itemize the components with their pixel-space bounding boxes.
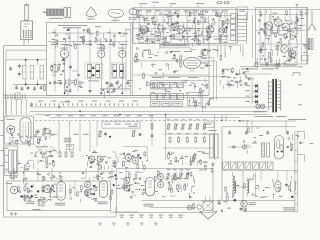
resistor R2	[75, 79, 77, 86]
box E left edge	[242, 171, 244, 212]
res stage1 low	[23, 196, 30, 198]
bus rail y97.8	[4, 97, 253, 99]
fuse bracket F1	[293, 73, 300, 76]
label ps	[241, 67, 274, 70]
box B wire h1	[133, 9, 320, 11]
cap C16	[37, 129, 40, 134]
box C right double edge	[305, 7, 307, 64]
connector plug J1	[24, 3, 29, 21]
diamonds stage2	[93, 185, 96, 196]
capacitor C15	[30, 102, 33, 107]
pot P2	[98, 130, 102, 138]
black mark E	[291, 196, 293, 198]
output tube V23 envelope	[57, 182, 66, 201]
filter capacitor C1	[64, 8, 67, 19]
tube V4 ellipse	[184, 57, 201, 72]
left border labels	[0, 120, 3, 166]
box A scatter lower2	[102, 80, 132, 97]
hook wire right2	[297, 155, 304, 162]
label tone	[255, 115, 286, 118]
scatter right of speaker	[218, 195, 231, 211]
label L1 value	[50, 17, 63, 20]
box A bottom junctions	[64, 88, 124, 94]
padder trimmer C11	[23, 65, 26, 79]
vibrator contact grid	[23, 30, 32, 37]
comb box	[15, 93, 20, 99]
tube V20 envelope	[275, 136, 284, 160]
tube V3 label	[118, 47, 125, 50]
driver bank row1	[167, 123, 207, 130]
capacitor C10	[18, 64, 21, 77]
box C wire h1	[256, 14, 307, 44]
wire left border 2	[5, 60, 7, 115]
wire tone top	[240, 120, 296, 122]
small box T4top	[204, 122, 214, 128]
tube V1	[60, 50, 68, 58]
scatter tone	[287, 134, 305, 151]
wires above box	[14, 168, 52, 181]
transformer T1 core	[272, 79, 276, 112]
pilot lamp LP2	[256, 104, 260, 108]
box D2 windings	[9, 150, 17, 173]
pilot lamp LP3	[261, 104, 265, 108]
lower text band	[98, 223, 158, 226]
box B wire h3	[135, 35, 229, 37]
bus rail y117.4	[50, 116, 240, 118]
vertical chain mid	[151, 115, 154, 146]
scatter out1	[17, 184, 58, 201]
label below C	[260, 64, 297, 67]
box D2 outline	[5, 146, 18, 176]
tube V15 envelope	[20, 118, 31, 144]
inverter row2	[169, 184, 186, 191]
label box B3	[161, 44, 189, 48]
box E scatter	[225, 173, 292, 199]
wire A-right h1	[133, 28, 209, 30]
tube V17	[97, 156, 103, 162]
terminal strip row1	[151, 82, 184, 87]
wire M1 leads	[24, 20, 29, 46]
capacitor C6	[69, 65, 72, 70]
strip top labels	[152, 76, 198, 79]
shield box C outline	[256, 7, 308, 64]
scatter mid-left2	[28, 149, 56, 169]
gram unit outer box	[222, 127, 297, 212]
wire ladder bottom	[13, 83, 46, 85]
tuner cloud K3	[129, 9, 137, 20]
wire comb drops	[6, 99, 26, 118]
marks rail mid	[51, 133, 89, 136]
output tube V23b envelope	[99, 181, 107, 198]
tube V25	[124, 185, 130, 191]
small part mid-left	[66, 144, 73, 149]
capacitor C7b	[59, 81, 62, 86]
shield box B outline	[133, 8, 236, 44]
tube V16	[89, 156, 95, 162]
choke L2	[233, 172, 235, 198]
capacitor C9	[127, 81, 130, 86]
scatter below B	[191, 46, 232, 61]
padder trimmer C13	[40, 65, 43, 79]
transformer T1 secondary winding	[278, 80, 281, 111]
rectifier D2	[255, 90, 258, 93]
small box B2	[237, 7, 248, 20]
label mid-left	[36, 145, 48, 148]
tube V13	[288, 50, 296, 58]
rail junction dots	[58, 106, 241, 122]
box D outline	[5, 116, 34, 144]
label V23b	[98, 201, 108, 204]
wire vert x252.5	[252, 15, 254, 57]
row above stage2	[81, 172, 145, 183]
wires above stage2	[86, 168, 126, 180]
box B text rows	[136, 10, 228, 39]
tube V10	[282, 23, 290, 31]
res tone right	[310, 142, 314, 145]
tube V2 label	[97, 47, 104, 50]
scatter bank below	[168, 151, 215, 173]
junction d1	[109, 136, 111, 138]
wire h y146.6	[123, 147, 147, 160]
cap C17	[104, 132, 107, 137]
rectifier D3	[255, 95, 258, 98]
tuner cloud K2	[108, 10, 123, 21]
IF T2 winding b	[96, 64, 100, 77]
pencil squiggle	[37, 199, 51, 202]
crystal grid part	[39, 199, 44, 206]
tube V14 label	[7, 118, 15, 121]
wire ps h2	[238, 73, 271, 75]
bus rail dashed	[35, 119, 250, 121]
lamp LP1	[220, 28, 225, 33]
tube V11	[290, 28, 298, 36]
label lamps	[254, 110, 266, 113]
terminal strip row2	[151, 93, 184, 99]
ps parts row	[254, 56, 297, 70]
ladder caps lower	[15, 85, 45, 92]
tube V5	[140, 26, 147, 33]
inverter labels	[166, 168, 189, 171]
speaker LS1 box	[203, 201, 213, 210]
rectifier D4	[255, 100, 258, 103]
box B scatter	[136, 9, 229, 47]
tone caps	[262, 143, 270, 157]
strip area scatter	[149, 82, 207, 107]
outer bottom border	[4, 207, 116, 217]
capacitor C7	[53, 80, 56, 85]
resistor R4 stack	[176, 55, 182, 69]
scatter A-right mid2	[200, 49, 212, 69]
resistor R1	[51, 65, 53, 72]
shield box A outline	[46, 23, 209, 96]
wire drop x213	[214, 58, 217, 100]
pot P1	[42, 129, 46, 137]
hook wire right	[297, 132, 304, 140]
wires ps small h	[200, 58, 217, 61]
wire ladder top	[6, 59, 46, 61]
terminal strip row3	[151, 102, 183, 106]
label T2	[88, 79, 99, 82]
tube V30 brackets	[285, 181, 296, 193]
tube V8	[265, 22, 273, 30]
IF T3 winding a	[113, 64, 117, 77]
wires above box B	[141, 5, 198, 7]
tube V19	[133, 158, 139, 164]
relay contacts row	[223, 162, 273, 169]
box C scatter	[258, 10, 310, 66]
wire v x97	[96, 121, 98, 147]
wire left border	[3, 46, 5, 217]
vibrator unit M1 body	[21, 21, 33, 40]
out1 wires	[70, 181, 99, 202]
diode stage1	[21, 195, 23, 198]
rectifier D1	[255, 84, 258, 87]
res bank	[59, 151, 73, 158]
rail small labels	[38, 100, 138, 103]
diagonal wires switch	[34, 144, 59, 155]
inverter bank	[166, 173, 189, 180]
scatter preamp	[86, 151, 123, 171]
label V4	[172, 50, 193, 53]
box E title	[283, 207, 295, 210]
magic eye V31	[240, 200, 256, 212]
junction diamonds out1	[30, 185, 39, 198]
junction diamonds ladder	[25, 59, 39, 86]
resistor chain top	[216, 2, 230, 4]
box D2 labels	[5, 148, 8, 170]
tube V29 envelope	[275, 181, 281, 192]
tube V12	[281, 45, 289, 53]
scatter out2	[110, 181, 147, 200]
box A wire h2	[48, 41, 128, 43]
wire bank h	[163, 134, 214, 148]
mark ps2	[298, 83, 302, 86]
stage2 box bottom	[110, 211, 138, 213]
wire rect leads	[252, 80, 258, 104]
wire bank v1	[165, 115, 167, 160]
box B col wires	[139, 10, 227, 43]
output box outline	[7, 181, 111, 211]
speaker feed res	[193, 203, 195, 210]
rail label row y115	[45, 114, 154, 117]
mid wire gram	[228, 145, 252, 149]
box A right scatter	[139, 26, 202, 49]
row above box	[10, 171, 62, 184]
speaker wires	[206, 196, 211, 201]
trimmer C5	[53, 63, 61, 76]
wire rails bottom	[142, 200, 295, 207]
scatter tone2	[243, 127, 263, 154]
vibrator inner lines	[24, 24, 30, 27]
crystal X1	[308, 39, 313, 50]
label P3	[129, 125, 138, 128]
scatter inverter	[154, 170, 194, 199]
padder trimmer C12	[30, 65, 33, 79]
junction diamonds out2	[112, 174, 116, 186]
gram coil L3	[234, 177, 236, 197]
wire bank v2	[214, 115, 216, 160]
bottom text row	[120, 215, 183, 218]
tube V6	[177, 26, 184, 33]
stage1 low labels	[27, 201, 41, 210]
bus rail y114.6	[35, 114, 268, 116]
tuner cloud K1	[86, 7, 97, 20]
rail tick row	[36, 103, 137, 105]
mark circle bottom	[187, 205, 192, 210]
text block mid-left	[64, 138, 72, 143]
capacitor C8	[106, 81, 119, 87]
speaker feed circle	[197, 205, 201, 209]
output transformer T4	[210, 134, 218, 158]
resistor R2b	[68, 79, 70, 86]
bus rail y111	[30, 110, 268, 112]
wire C top terminal	[296, 4, 299, 7]
terminal strip row3 labels	[152, 102, 180, 105]
label V23	[55, 203, 65, 206]
scatter preamp2	[122, 150, 148, 170]
labels rectifier	[246, 85, 251, 102]
box A scatter upper	[52, 28, 131, 50]
wire mic feed	[4, 46, 47, 60]
tube V21c	[85, 190, 91, 196]
tube V24	[124, 177, 130, 183]
box A stage wires	[55, 28, 126, 92]
terminal comb	[6, 94, 26, 100]
dense cluster left of T1	[220, 67, 254, 89]
tube V3	[119, 50, 126, 57]
wire ladder verticals	[26, 60, 38, 84]
wire V1 leads	[62, 45, 65, 94]
junction box JB1	[188, 93, 201, 108]
wire jb drop	[202, 92, 204, 112]
pot P3	[132, 130, 136, 138]
box B wire h2	[135, 14, 232, 16]
wire ps top h	[240, 66, 297, 68]
right rail pair	[295, 131, 297, 212]
resistor R3	[79, 81, 81, 88]
wire drops mid-left	[59, 121, 90, 152]
gnd marks below	[10, 160, 30, 215]
stage3 box outline	[117, 169, 214, 213]
tube V21	[11, 186, 18, 193]
mark ps1	[298, 65, 303, 68]
scatter A-right mid	[134, 48, 178, 80]
junction d2	[139, 157, 141, 159]
switch area scatter	[34, 128, 54, 145]
tube V14	[7, 126, 15, 134]
tube V20 electrodes	[276, 140, 283, 153]
box A wire h1	[48, 32, 128, 34]
driver bank labels2	[168, 132, 206, 135]
hanging caps row	[228, 130, 289, 135]
terminal strip row1 labels	[152, 83, 183, 86]
res out1	[24, 185, 44, 202]
wires below B	[218, 45, 226, 57]
wire tone drops	[222, 115, 286, 133]
wire B bottom line	[160, 44, 240, 46]
small box ps right	[302, 55, 309, 60]
tube V21b	[85, 182, 91, 188]
IF T2 winding a	[88, 64, 92, 77]
box A inner divider	[131, 23, 132, 96]
box A right bottom scatter	[139, 78, 208, 98]
wire V3 leads	[121, 44, 123, 94]
bus labels	[60, 88, 172, 102]
box C col wires	[260, 9, 301, 64]
box A label row	[51, 43, 127, 46]
gram coil L4	[247, 177, 249, 197]
antenna ANT1	[308, 11, 316, 31]
scatter mid right	[206, 98, 214, 109]
tube V1 label	[60, 47, 68, 50]
labels above box B	[139, 2, 204, 4]
junction blob	[234, 199, 236, 201]
tube V7	[206, 26, 213, 33]
IF can T3 outline	[112, 63, 126, 79]
tube V27	[158, 174, 164, 180]
IF T3 winding b	[120, 64, 124, 77]
driver bank labels1	[167, 118, 207, 121]
label tone right	[288, 118, 306, 121]
terminal ladder TS1	[238, 13, 247, 44]
label V26	[144, 204, 154, 207]
gram unit divider	[222, 170, 297, 172]
output tube V26 envelope	[146, 177, 155, 196]
mark ps3	[298, 103, 302, 106]
lamp strip box	[102, 122, 140, 128]
line choke L1 (hatched)	[43, 9, 63, 16]
box B right stack	[231, 14, 236, 41]
ps marks	[201, 58, 209, 67]
IF T2 core marks	[92, 66, 95, 77]
capacitor C14	[9, 66, 12, 71]
bus rail y95.5	[4, 95, 209, 97]
stage feed rail	[6, 170, 115, 172]
speaker LS1 horn	[200, 211, 218, 219]
tube V28	[158, 182, 164, 188]
label V21	[6, 182, 12, 185]
tube V9	[274, 19, 282, 27]
filter capacitor C2	[68, 8, 71, 19]
box A scatter lower	[49, 60, 84, 96]
tube V18	[126, 155, 132, 161]
wire A-right h2	[133, 61, 209, 75]
cap C18	[138, 133, 143, 136]
bus rail y107	[30, 106, 268, 108]
tube V22	[44, 186, 51, 193]
box D scatter	[9, 133, 33, 146]
transformer T1 primary winding	[269, 81, 272, 110]
wire V2 leads	[100, 44, 102, 94]
T4 labels	[209, 129, 217, 132]
IF can T2 outline	[85, 63, 103, 79]
terminal strip row2 labels	[152, 94, 183, 97]
driver bank row2	[169, 136, 205, 143]
strip header line	[150, 76, 230, 80]
wire ladder drops	[240, 44, 243, 57]
tube V2	[98, 50, 105, 57]
box E wires	[261, 171, 287, 182]
box A title	[58, 25, 101, 28]
gram wire mid	[234, 172, 255, 196]
